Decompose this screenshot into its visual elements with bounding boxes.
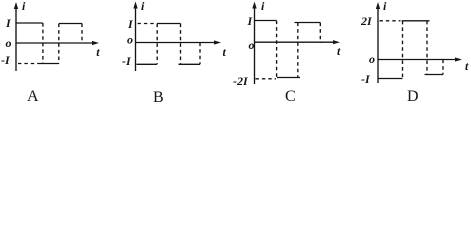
svg-text:i: i	[383, 0, 387, 13]
svg-text:-I: -I	[1, 53, 11, 67]
svg-text:-I: -I	[122, 54, 132, 68]
svg-text:i: i	[22, 0, 26, 13]
svg-text:C: C	[285, 88, 296, 105]
svg-text:t: t	[96, 45, 100, 59]
svg-text:D: D	[407, 88, 419, 105]
svg-text:i: i	[141, 0, 145, 13]
svg-text:o: o	[6, 36, 12, 50]
svg-text:B: B	[153, 89, 164, 106]
svg-text:I: I	[247, 14, 254, 28]
svg-text:o: o	[127, 32, 133, 46]
svg-text:I: I	[5, 16, 12, 30]
svg-text:2I: 2I	[360, 14, 373, 28]
svg-text:i: i	[261, 0, 265, 13]
svg-text:t: t	[223, 45, 227, 59]
svg-text:t: t	[337, 44, 341, 58]
svg-text:o: o	[369, 52, 375, 66]
svg-text:t: t	[465, 59, 469, 73]
svg-text:A: A	[27, 88, 39, 105]
svg-text:-I: -I	[361, 72, 371, 86]
svg-text:-2I: -2I	[233, 74, 249, 88]
svg-text:I: I	[127, 17, 134, 31]
svg-text:o: o	[249, 38, 255, 52]
